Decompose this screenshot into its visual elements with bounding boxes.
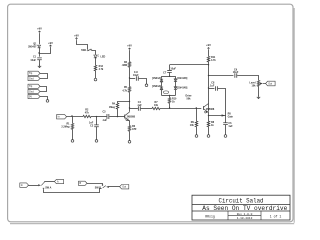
wire between D1 D2 — [161, 82, 163, 87]
wire diode bottom rail — [162, 95, 176, 97]
label R1 refdes — [66, 122, 70, 125]
transistor Q1 — [38, 45, 41, 48]
label Q1 value 2N5457 — [28, 45, 37, 48]
wire R8 to portal — [208, 127, 210, 135]
wire C1 to ground — [39, 60, 41, 66]
wire R1 top — [72, 117, 74, 124]
wire emitter to R8 — [208, 112, 210, 121]
wire R2 to C3 — [91, 116, 107, 118]
title text page — [270, 214, 282, 218]
label R10 refdes — [172, 98, 177, 101]
wire battery to portal — [40, 97, 48, 100]
label R8 value 1k — [211, 124, 214, 127]
svg-text:10uF: 10uF — [233, 71, 239, 74]
svg-text:10uF: 10uF — [30, 59, 36, 62]
svg-text:47R: 47R — [132, 128, 137, 131]
wire between D3 D4 — [175, 82, 177, 87]
junction feedback top — [129, 101, 130, 102]
resistor R8 — [207, 121, 209, 127]
label Q3 value 2N5088 — [206, 108, 215, 111]
wire R6 to portal — [129, 131, 131, 140]
switch SWA arm and contacts — [41, 181, 44, 189]
label D4 value 1N4148 — [177, 86, 187, 89]
wire Q1 source down — [39, 48, 41, 57]
label C7 value 10uF — [170, 67, 176, 70]
label C7 refdes — [163, 72, 167, 75]
junction C5 branch — [129, 77, 130, 78]
svg-text:Gnd: Gnd — [29, 77, 34, 80]
wire R7 to Q3 base — [160, 108, 201, 110]
resistor R2 — [83, 115, 91, 117]
svg-text:10k: 10k — [252, 84, 257, 87]
resistor R4 — [116, 103, 118, 109]
junction Q1 source node — [38, 52, 39, 53]
title block cell dividers — [228, 211, 261, 220]
label D2 value 1N34A — [152, 85, 161, 88]
wire R3 to R5 — [129, 67, 131, 86]
capacitor C2 — [94, 125, 99, 127]
junction diode top — [169, 76, 170, 77]
label SWA — [45, 186, 51, 189]
label C9 refdes — [234, 68, 238, 71]
net flag SWB in — [79, 181, 88, 185]
svg-text:2.2Meg: 2.2Meg — [61, 125, 70, 128]
wire C7 to diode top — [169, 73, 171, 77]
svg-text:Gnd: Gnd — [29, 90, 34, 93]
wire jack to SWA — [29, 185, 39, 187]
wire R10 to bus — [169, 103, 171, 108]
resistor VR level — [257, 80, 259, 86]
label R3 value — [122, 64, 127, 67]
resistor R3 — [128, 62, 130, 67]
svg-text:.1uF: .1uF — [102, 119, 107, 122]
label R11 refdes — [211, 56, 216, 59]
arrow into SWA — [38, 184, 41, 186]
label Q2 refdes — [125, 119, 129, 122]
label R6 value — [132, 128, 137, 131]
wire right diode col top — [175, 76, 177, 79]
capacitor C6 — [223, 123, 228, 125]
junction base node — [117, 116, 118, 117]
capacitor C7 — [167, 70, 172, 72]
net flag jack in — [20, 183, 29, 187]
svg-text:10k: 10k — [190, 124, 195, 127]
portal circle C2 — [95, 140, 98, 143]
junction diode bottom — [169, 95, 170, 96]
svg-text:50k: 50k — [187, 97, 192, 100]
label R11 value 4.7k — [211, 59, 216, 62]
net flag J1 tip — [28, 71, 40, 75]
net flag SWA out — [54, 179, 63, 183]
svg-text:Circuit Salad: Circuit Salad — [219, 198, 264, 205]
portal circle LED — [94, 78, 97, 81]
wire R11 to collector — [208, 62, 210, 112]
label C4 refdes — [138, 101, 142, 104]
wire R12 to portal — [95, 71, 97, 78]
resistor R5 — [128, 87, 130, 93]
wire V+ to Q1 drain — [39, 34, 41, 45]
resistor R11 — [207, 56, 209, 62]
wire to R10 — [169, 95, 171, 97]
svg-text:4.7k: 4.7k — [99, 68, 104, 71]
wire level to ground — [258, 86, 260, 96]
capacitor C3 — [107, 114, 109, 119]
svg-text:[1N4148]: [1N4148] — [177, 77, 187, 80]
junction diode bottom bus — [169, 107, 170, 108]
label R1 value 2.2Meg — [61, 125, 70, 128]
junction R9 top — [196, 107, 197, 108]
wire D4 to bottom rail — [175, 90, 177, 96]
wire C6 to portal — [225, 125, 227, 135]
transistor Q2 — [125, 112, 130, 121]
label C2 value 1nF — [89, 121, 94, 124]
svg-text:4.7k: 4.7k — [122, 89, 127, 92]
label drive pot value — [187, 97, 192, 100]
label level pot value — [252, 84, 257, 87]
wire input to R2 — [67, 116, 83, 118]
portal circle R1 — [71, 140, 74, 143]
wire C8 loop — [209, 89, 226, 116]
label drive pot — [186, 94, 193, 97]
label R9 value 10k — [190, 124, 195, 127]
svg-text:47k: 47k — [85, 112, 90, 115]
label C4 value .1uF — [137, 104, 142, 107]
ground below level — [257, 96, 260, 99]
wire to +9V stub right — [39, 47, 51, 53]
label Q1 refdes — [33, 43, 37, 46]
switch SW1 — [87, 49, 92, 51]
page border shadow — [10, 8, 294, 224]
label R7 refdes — [154, 101, 158, 104]
transistor Q3 — [204, 104, 209, 113]
wire out loop — [40, 87, 47, 92]
wire C4 to R7 — [141, 108, 152, 110]
label gain pot refdes — [228, 112, 232, 115]
svg-text:1uF: 1uF — [228, 125, 233, 128]
svg-text:2N5457: 2N5457 — [28, 45, 37, 48]
arrow gain wiper — [222, 114, 225, 116]
svg-text:[1N4148]: [1N4148] — [177, 86, 187, 89]
label R4 refdes — [112, 103, 116, 106]
wire +9V to switch — [77, 40, 88, 49]
power +9V supply right stub — [48, 41, 53, 48]
title block outer box — [192, 195, 290, 220]
resistor R7 — [152, 107, 160, 109]
wire SWB to jack — [109, 186, 120, 188]
label C1 value 10uF — [30, 59, 36, 62]
label R9 refdes — [191, 121, 195, 124]
arrow level wiper — [260, 82, 266, 84]
junction C8 branch — [208, 87, 209, 88]
resistor R12 — [94, 65, 96, 71]
label LED value — [101, 56, 106, 59]
label SWB — [95, 187, 102, 190]
wire switch to LED — [92, 51, 96, 55]
title text revision — [237, 213, 253, 216]
wire top bus to C7 — [170, 64, 209, 66]
label D3 value 1N4148 — [177, 77, 187, 80]
svg-text:.68M: .68M — [122, 64, 127, 67]
label R7 value 10k — [154, 104, 159, 107]
resistor R9 — [195, 121, 197, 127]
power +9V supply LED — [74, 33, 79, 40]
svg-text:[1N34A]: [1N34A] — [152, 77, 161, 80]
wire D2 to bottom rail — [161, 90, 163, 96]
capacitor C1 — [37, 58, 42, 60]
label C8 value — [209, 84, 214, 87]
label R10 value 1k — [172, 101, 175, 104]
junction C4 branch — [129, 107, 130, 108]
wire emitter to R6 — [129, 120, 131, 125]
svg-text:LED: LED — [101, 56, 106, 59]
svg-text:+9V: +9V — [206, 43, 211, 47]
wire R5 to collector — [129, 92, 131, 112]
wire LED to R12 — [95, 58, 97, 66]
portal circle battery — [46, 100, 49, 103]
diode D1 — [160, 79, 163, 82]
net flag jack out — [120, 185, 129, 189]
svg-text:10uF: 10uF — [170, 67, 176, 70]
svg-text:.1uF: .1uF — [209, 84, 214, 87]
svg-text:As Seen On TV overdrive: As Seen On TV overdrive — [202, 205, 287, 212]
arrow out of SWB — [106, 186, 109, 188]
net flag J2 ring — [28, 89, 40, 93]
wire to C8 — [209, 88, 215, 90]
capacitor C8 — [215, 86, 217, 91]
svg-text:SW1: SW1 — [81, 49, 87, 52]
label level pot — [249, 81, 255, 84]
wire feedback top — [118, 102, 130, 104]
label C3 refdes — [102, 111, 106, 114]
wire bus to C7 — [169, 65, 171, 70]
wire level bus left — [209, 75, 234, 77]
label R8 refdes — [211, 121, 215, 124]
wire to C5 — [130, 78, 136, 80]
title text date — [237, 217, 253, 220]
label R12 value — [99, 68, 104, 71]
wire R9 to portal — [196, 127, 198, 135]
wire R4 to base — [117, 109, 119, 117]
wire C9 to level pot — [237, 76, 258, 81]
wire C3 to base node — [109, 116, 124, 118]
svg-text:Gain: Gain — [228, 116, 234, 119]
portal circle R9 — [195, 135, 198, 138]
junction level bus — [208, 75, 209, 76]
wire diode top rail — [162, 76, 176, 78]
svg-text:[1N34A]: [1N34A] — [152, 85, 161, 88]
svg-text:10k: 10k — [154, 104, 159, 107]
label C3 value .1uF — [102, 119, 107, 122]
label R4 value 1Meg — [109, 106, 116, 109]
svg-text:SW A: SW A — [45, 186, 51, 189]
svg-text:9V: 9V — [29, 95, 32, 98]
resistor R1 — [71, 123, 73, 129]
wire R1 to portal — [72, 129, 74, 139]
title text Circuit Salad — [219, 198, 264, 205]
power +9V supply central — [127, 44, 132, 51]
junction top bus — [208, 64, 209, 65]
net flag battery 9V — [28, 94, 40, 98]
label R2 refdes — [85, 109, 89, 112]
diode D2 — [160, 87, 163, 90]
label C2 refdes — [90, 125, 94, 128]
label C8 refdes — [211, 82, 215, 85]
junction C2 node — [96, 116, 97, 117]
capacitor C5 — [136, 76, 138, 81]
diode D3 — [174, 79, 177, 82]
label gain pot name — [228, 116, 234, 119]
label R12 refdes — [99, 65, 104, 68]
svg-text:Out: Out — [122, 186, 126, 189]
label C6 refdes — [228, 122, 232, 125]
net flag J1 ring — [28, 76, 40, 80]
label C6 value 1uF — [228, 125, 233, 128]
wire C5 to portal — [139, 79, 147, 85]
wire R9 top — [196, 108, 198, 121]
junction gain node — [208, 115, 209, 116]
label R3 refdes — [124, 61, 128, 64]
wire collector to C4 — [130, 108, 138, 110]
wire C6 top — [225, 116, 227, 123]
wire SWB flag right — [87, 184, 103, 186]
portal circle R8 — [207, 135, 210, 138]
label R6 refdes — [132, 125, 136, 128]
net flag J2 tip — [28, 84, 40, 88]
wire bypass bus — [44, 189, 102, 193]
svg-text:1-10-2013: 1-10-2013 — [237, 217, 253, 220]
capacitor C9 — [235, 73, 237, 78]
svg-text:4.7k: 4.7k — [211, 59, 216, 62]
svg-text:+9V: +9V — [74, 33, 79, 37]
svg-text:+9V: +9V — [48, 41, 53, 45]
title block divider 2 — [192, 210, 290, 212]
wire SWA to flag — [45, 181, 55, 183]
label R5 refdes — [124, 86, 128, 89]
resistor R10 — [168, 98, 170, 104]
label C5 value 10uF — [133, 74, 139, 77]
label R5 value 4.7k — [122, 89, 127, 92]
label C1 refdes — [33, 56, 37, 59]
portal circle C6 — [224, 135, 227, 138]
ellipse marker germanium — [163, 91, 168, 94]
net flag output — [266, 81, 276, 86]
label R2 value 47k — [85, 112, 90, 115]
wire left diode col top — [161, 76, 163, 79]
svg-text:Out: Out — [268, 83, 272, 86]
portal circle R6 — [128, 141, 131, 144]
wire +9V to R11 — [208, 50, 210, 56]
svg-text:Rev 1.0.0: Rev 1.0.0 — [237, 213, 253, 216]
portal circle C5 — [145, 84, 148, 87]
title block divider 1 — [192, 204, 290, 206]
junction input R1 — [71, 115, 72, 116]
capacitor C4 — [138, 106, 140, 111]
power +9V supply right — [206, 43, 211, 50]
net flag input GUIT — [57, 115, 67, 119]
LED D5 — [94, 55, 99, 58]
label Q2 value 2N5088 — [127, 116, 136, 119]
label D1 value 1N34A — [152, 77, 161, 80]
label Q3 refdes — [204, 111, 208, 114]
ground below C1 — [38, 65, 41, 68]
title text author — [205, 214, 215, 218]
wire +9V to R3 — [129, 51, 131, 62]
resistor R6 — [128, 126, 130, 132]
label SW1 — [81, 49, 87, 52]
switch SWB arm and contacts — [102, 185, 106, 188]
label C5 refdes — [134, 71, 139, 74]
svg-text:SW B: SW B — [95, 187, 102, 190]
wire tip loop — [40, 74, 48, 79]
wire C2 to portal — [96, 127, 98, 140]
diode D4 — [174, 87, 177, 90]
title text As Seen On TV overdrive — [202, 205, 287, 212]
label C9 value 10uF — [233, 71, 239, 74]
svg-text:+9V: +9V — [37, 27, 42, 31]
svg-text:RRsig: RRsig — [205, 214, 215, 218]
svg-text:+9V: +9V — [127, 44, 132, 48]
svg-text:1 of 1: 1 of 1 — [270, 214, 282, 218]
power +9V supply top-left — [37, 27, 42, 34]
svg-text:.1uF: .1uF — [137, 104, 142, 107]
svg-text:1Meg: 1Meg — [109, 106, 116, 109]
wire C2 top — [96, 117, 98, 125]
